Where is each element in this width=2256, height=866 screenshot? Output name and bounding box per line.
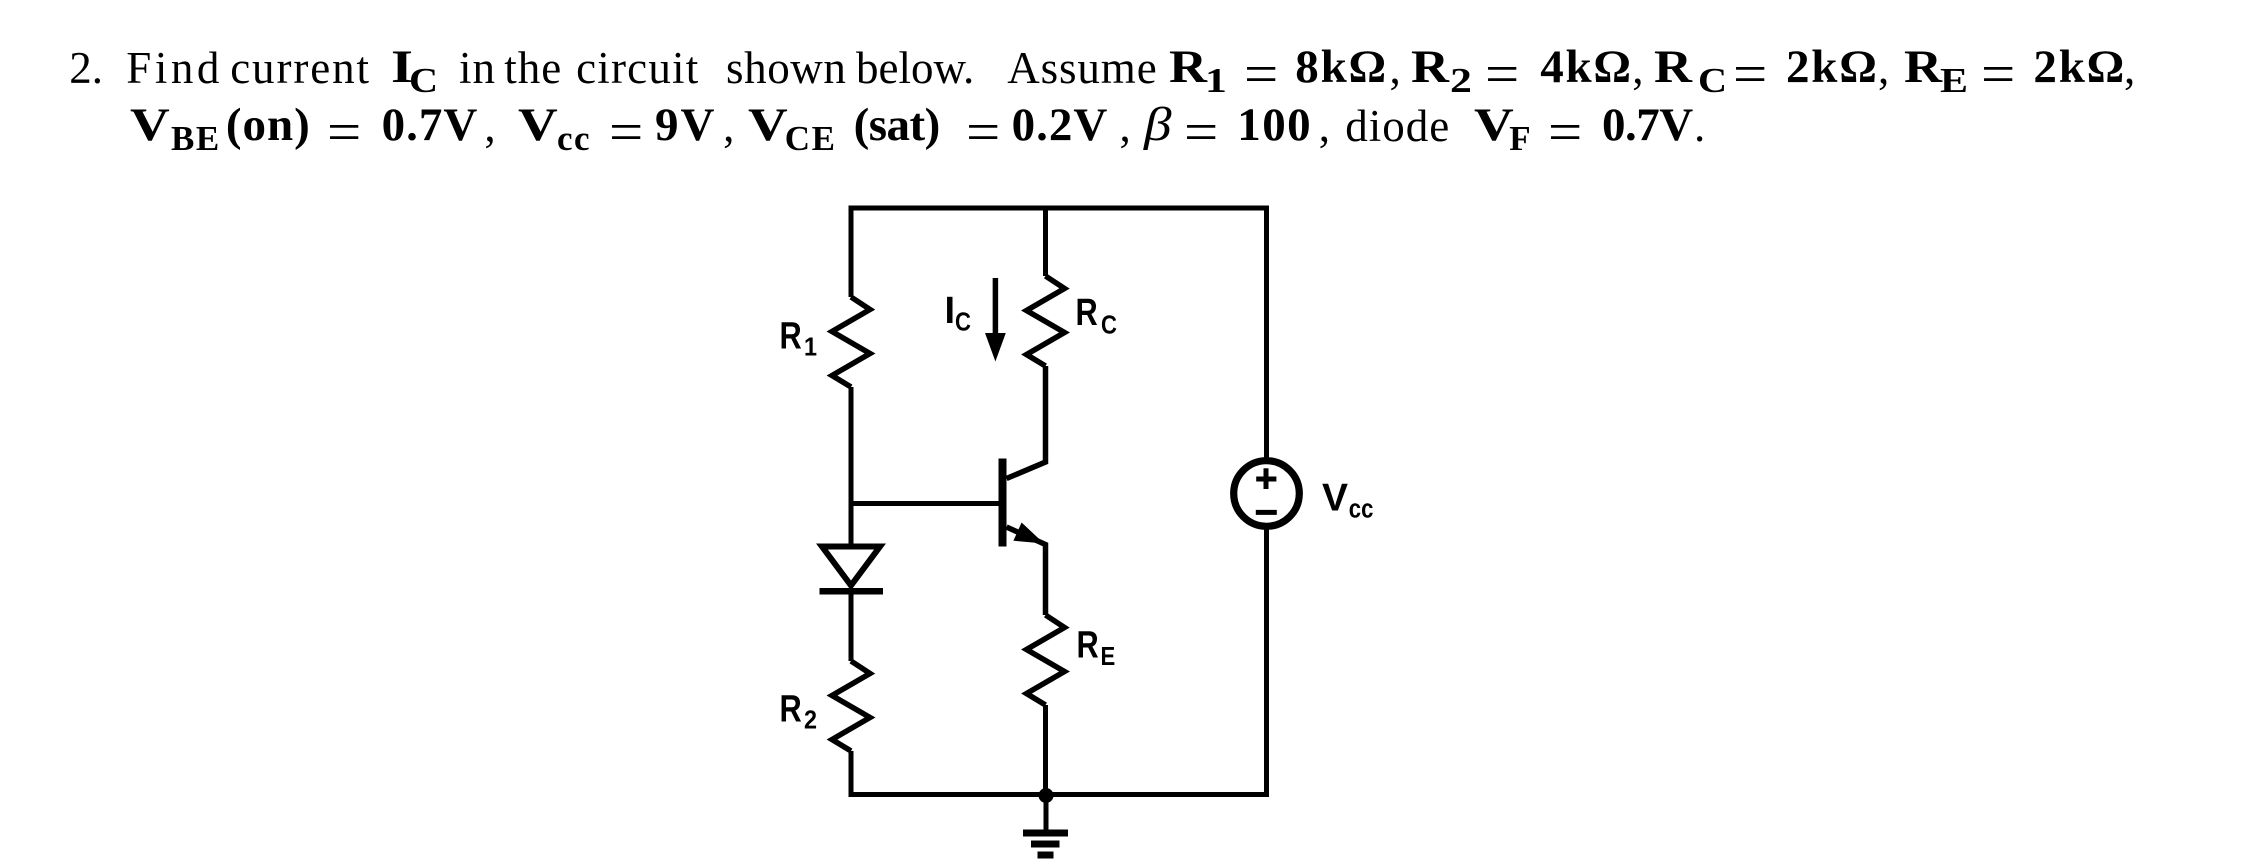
wire: right branch from Vcc source to bottom rail bbox=[1264, 527, 1269, 797]
label RC bbox=[1076, 292, 1117, 340]
resistor R2 bbox=[832, 661, 870, 751]
current arrow IC bbox=[985, 278, 1006, 362]
svg-text:R: R bbox=[780, 689, 802, 731]
svg-text:1: 1 bbox=[804, 334, 817, 362]
diode D1 cathode bar bbox=[820, 588, 884, 595]
label R2 bbox=[780, 689, 818, 735]
svg-text:V: V bbox=[1322, 476, 1348, 519]
svg-text:I: I bbox=[945, 290, 956, 332]
wire: left branch from top rail to R1 bbox=[849, 206, 854, 298]
svg-text:R: R bbox=[780, 316, 802, 358]
resistor RC bbox=[1027, 276, 1065, 366]
wire: right branch from top rail to Vcc source bbox=[1264, 206, 1269, 461]
label R1 bbox=[780, 316, 818, 362]
wire: left branch from R1 to diode anode bbox=[849, 387, 854, 544]
diode D1 anode triangle bbox=[822, 547, 880, 586]
wire: top rail bbox=[849, 206, 1270, 211]
wire: emitter branch from RE to bottom rail bbox=[1043, 705, 1048, 795]
svg-text:R: R bbox=[1077, 625, 1099, 667]
problem text line 2 bbox=[0, 0, 2256, 1]
label RE bbox=[1077, 625, 1116, 672]
svg-text:R: R bbox=[1076, 292, 1098, 334]
wire: collector lead from RC to transistor base bar bbox=[1007, 366, 1046, 479]
voltage source minus sign bbox=[1256, 510, 1277, 515]
wire: bottom rail bbox=[849, 792, 1270, 797]
wire: left branch from R2 to bottom rail bbox=[849, 751, 854, 797]
svg-text:C: C bbox=[955, 308, 971, 337]
wire: ground stub bbox=[1044, 796, 1049, 831]
resistor R1 bbox=[832, 297, 870, 387]
label Vcc bbox=[1322, 476, 1373, 524]
svg-text:cc: cc bbox=[1349, 495, 1374, 524]
problem text line 1 bbox=[0, 0, 2256, 1]
transistor Q1 emitter lead bbox=[1007, 527, 1046, 615]
junction dot at emitter and bottom rail bbox=[1039, 788, 1054, 803]
svg-text:2: 2 bbox=[804, 707, 817, 735]
transistor Q1 base bar bbox=[999, 459, 1007, 547]
transistor Q1 emitter arrowhead bbox=[1013, 523, 1044, 544]
ground symbol bbox=[1023, 830, 1068, 859]
wire: base wire from left branch to transistor bbox=[851, 501, 1000, 506]
voltage source plus sign bbox=[1256, 468, 1276, 489]
svg-text:E: E bbox=[1101, 642, 1116, 671]
resistor RE bbox=[1027, 615, 1065, 705]
svg-text:C: C bbox=[1101, 311, 1117, 340]
voltage source Vcc circle bbox=[1234, 461, 1300, 527]
label IC bbox=[945, 290, 971, 337]
wire: left branch from diode cathode to R2 bbox=[849, 594, 854, 661]
wire: middle branch from top rail to RC bbox=[1043, 208, 1048, 276]
